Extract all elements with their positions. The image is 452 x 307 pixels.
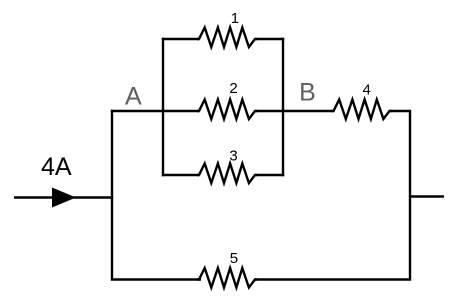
- resistor 4: [332, 100, 392, 120]
- resistor 1 (top of parallel box): [197, 28, 257, 48]
- wire output stub: [410, 195, 444, 197]
- resistor 3 (bottom of parallel box): [197, 164, 257, 184]
- svg-text:B: B: [299, 79, 316, 107]
- wire R4 to right vertical and down to bottom: [255, 111, 410, 280]
- svg-text:1: 1: [231, 10, 239, 27]
- svg-text:2: 2: [229, 80, 237, 97]
- wire node A row (left vertical to R2): [111, 110, 199, 112]
- resistor 2 (zigzag between A and B): [197, 100, 257, 120]
- svg-text:4A: 4A: [41, 153, 72, 181]
- svg-text:4: 4: [363, 82, 371, 99]
- wire node B row (R2 to R4): [255, 110, 334, 112]
- wire left vertical and bottom-left: [112, 110, 201, 280]
- wire input (current arrow lead): [14, 196, 113, 198]
- resistor 3 right lead wire: [255, 174, 284, 176]
- svg-text:3: 3: [229, 148, 237, 165]
- wire parallel-box right vertical: [282, 38, 284, 176]
- svg-text:5: 5: [230, 250, 238, 267]
- svg-text:A: A: [125, 83, 142, 111]
- resistor 1 left lead wire: [162, 38, 199, 40]
- arrow head (current direction): [52, 188, 76, 208]
- resistor 5 (bottom branch): [197, 268, 257, 288]
- resistor 1 right lead wire: [255, 38, 284, 40]
- resistor 3 left lead wire: [162, 174, 199, 176]
- wire parallel-box left vertical: [162, 38, 164, 176]
